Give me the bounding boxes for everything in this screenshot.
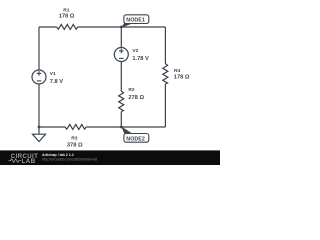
svg-text:Artichap / lab 2 1.2: Artichap / lab 2 1.2	[42, 153, 74, 157]
svg-text:http://circuitlab.com/c863f9ab: http://circuitlab.com/c863f9ab9nrw8	[42, 158, 97, 162]
wire top-left horizontal	[39, 26, 57, 28]
wire bottom-left horizontal	[39, 126, 65, 128]
svg-text:R2: R2	[128, 87, 135, 93]
wire middle branch upper	[120, 27, 122, 48]
svg-text:NODE1: NODE1	[126, 18, 145, 24]
svg-text:1.78 V: 1.78 V	[132, 56, 149, 62]
svg-text:178 Ω: 178 Ω	[174, 75, 190, 81]
wire middle branch lower	[120, 112, 122, 128]
wire middle branch mid	[120, 62, 122, 92]
junction dot node2	[120, 126, 123, 129]
resistor R4	[163, 64, 190, 85]
voltage source V2	[114, 48, 149, 63]
svg-text:LAB: LAB	[22, 158, 36, 165]
wire bottom middle	[86, 126, 165, 128]
svg-text:R4: R4	[174, 68, 181, 74]
resistor R2	[119, 87, 145, 112]
node NODE2	[121, 127, 149, 143]
resistor R1	[57, 8, 78, 30]
resistor R3	[65, 124, 86, 148]
wire right branch lower	[164, 84, 166, 127]
wire right branch upper	[164, 27, 166, 64]
wire top middle	[78, 26, 166, 28]
svg-text:278 Ω: 278 Ω	[128, 95, 144, 101]
wire left branch lower	[38, 84, 40, 127]
junction dot left bottom	[38, 126, 41, 129]
svg-text:V2: V2	[132, 48, 138, 54]
ground	[33, 127, 46, 142]
svg-text:R3: R3	[71, 136, 78, 142]
svg-text:V1: V1	[50, 71, 56, 77]
footer logo zigzag	[9, 159, 22, 163]
voltage source V1	[32, 70, 63, 85]
svg-text:378 Ω: 378 Ω	[67, 143, 83, 149]
svg-text:178 Ω: 178 Ω	[59, 14, 75, 20]
junction dot node1	[120, 26, 123, 29]
svg-text:7.8 V: 7.8 V	[50, 79, 63, 85]
svg-text:NODE2: NODE2	[126, 136, 145, 142]
wire left branch upper	[38, 27, 40, 70]
footer bar	[0, 150, 220, 165]
node NODE1	[121, 15, 149, 28]
